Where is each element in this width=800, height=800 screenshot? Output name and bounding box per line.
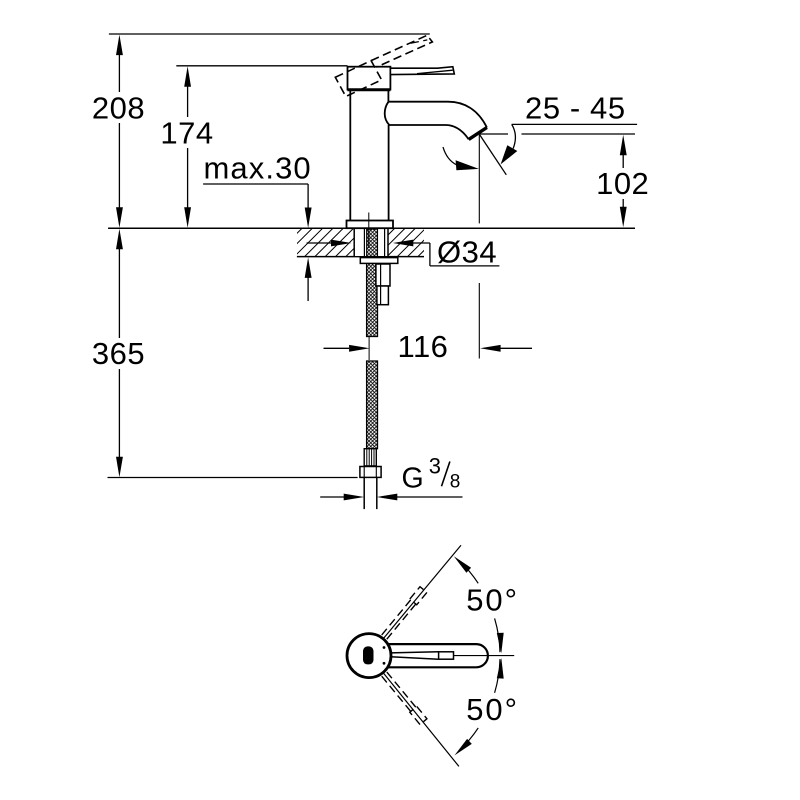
svg-text:174: 174	[160, 116, 213, 151]
svg-text:116: 116	[398, 329, 449, 364]
svg-text:8: 8	[450, 472, 461, 493]
svg-text:3: 3	[429, 453, 442, 478]
svg-text:208: 208	[92, 90, 145, 125]
svg-text:50°: 50°	[466, 583, 519, 618]
svg-text:50°: 50°	[466, 692, 519, 727]
svg-text:G: G	[402, 463, 425, 495]
svg-text:25 - 45: 25 - 45	[525, 91, 626, 126]
svg-text:365: 365	[92, 336, 145, 371]
svg-text:Ø34: Ø34	[437, 234, 497, 269]
svg-text:102: 102	[596, 166, 649, 201]
svg-text:max.30: max.30	[204, 151, 312, 186]
